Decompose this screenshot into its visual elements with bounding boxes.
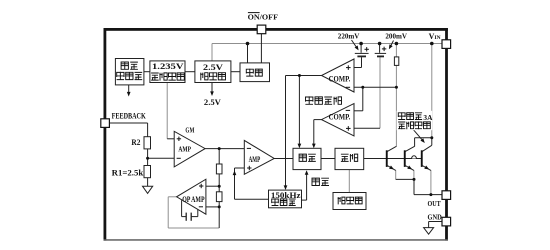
svg-text:1.235V: 1.235V: [152, 62, 184, 71]
svg-text:COMP.: COMP.: [329, 112, 351, 121]
svg-text:2.5V: 2.5V: [203, 62, 224, 72]
svg-text:220mV: 220mV: [338, 32, 360, 41]
svg-text:OUT: OUT: [428, 199, 441, 208]
svg-text:200mV: 200mV: [385, 32, 407, 41]
svg-text:COMP.: COMP.: [329, 74, 351, 83]
svg-text:GND: GND: [428, 212, 443, 221]
svg-text:OP AMP: OP AMP: [182, 194, 204, 204]
svg-text:3A: 3A: [423, 113, 433, 122]
svg-text:AMP: AMP: [178, 145, 191, 154]
svg-text:AMP: AMP: [249, 154, 261, 164]
svg-text:R1=2.5k: R1=2.5k: [112, 168, 144, 177]
svg-text:FEEDBACK: FEEDBACK: [112, 112, 147, 121]
svg-text:IN: IN: [435, 35, 441, 41]
svg-text:2.5V: 2.5V: [204, 97, 222, 107]
svg-text:GM: GM: [185, 127, 194, 135]
svg-text:ON/OFF: ON/OFF: [248, 13, 279, 22]
svg-text:R2: R2: [131, 138, 140, 147]
